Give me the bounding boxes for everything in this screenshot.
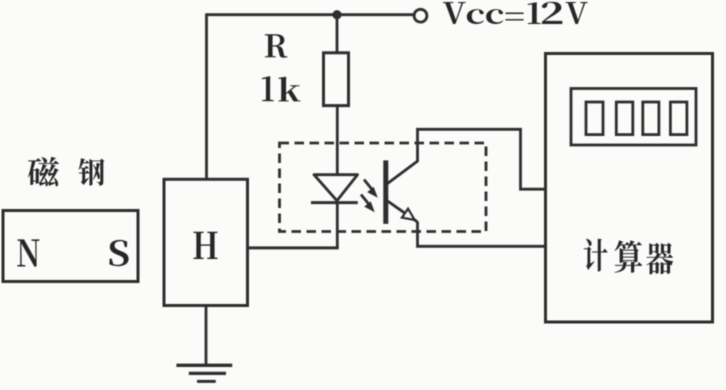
label: 1k bbox=[262, 76, 301, 101]
wire: left vertical from H sensor to top rail bbox=[205, 15, 208, 180]
display digit bar 4 bbox=[670, 102, 687, 135]
hall sensor box bbox=[164, 179, 248, 305]
optocoupler U1: dashed outline bbox=[280, 143, 487, 232]
label: magnet steel (cike gang) bbox=[28, 157, 105, 187]
phototransistor: emitter open arrowhead bbox=[402, 209, 414, 220]
label: N pole bbox=[17, 239, 39, 266]
magnet body bbox=[3, 211, 138, 282]
label: Vcc=12V bbox=[443, 2, 588, 24]
resistor R1 body bbox=[324, 53, 349, 106]
wire: emitter down and across to computer bbox=[418, 222, 546, 247]
LED cathode bar bbox=[311, 201, 358, 204]
wire: cathode across to hall sensor bbox=[248, 246, 339, 249]
display digit bar 3 bbox=[643, 102, 659, 135]
phototransistor: emitter lead bbox=[388, 201, 418, 222]
wire: top rail to Vcc terminal bbox=[205, 13, 413, 16]
wire: LED cathode down bbox=[336, 203, 339, 248]
ground symbol bbox=[176, 365, 232, 381]
label: S pole bbox=[109, 240, 128, 266]
display digit bar 1 bbox=[586, 102, 603, 135]
display digit bar 2 bbox=[616, 102, 633, 135]
light arrow 2 bbox=[361, 195, 375, 213]
LED inside optocoupler: anode triangle bbox=[314, 175, 358, 201]
phototransistor: base bar bbox=[383, 160, 388, 224]
label: H bbox=[193, 232, 217, 259]
label: computer (jisuanqi) bbox=[584, 239, 674, 275]
wire: collector up, over and down to computer bbox=[418, 129, 546, 189]
label: R bbox=[265, 34, 287, 57]
light arrow 1 bbox=[364, 180, 378, 198]
phototransistor: collector lead bbox=[388, 161, 419, 184]
node: junction of rail and resistor branch bbox=[332, 10, 341, 19]
wire: resistor to LED anode bbox=[336, 106, 339, 175]
wire: hall sensor to ground bbox=[205, 306, 208, 365]
wire: rail junction down to resistor bbox=[336, 17, 339, 53]
display window bbox=[571, 89, 696, 146]
computer box bbox=[546, 54, 713, 323]
terminal: Vcc open circle bbox=[414, 9, 427, 22]
